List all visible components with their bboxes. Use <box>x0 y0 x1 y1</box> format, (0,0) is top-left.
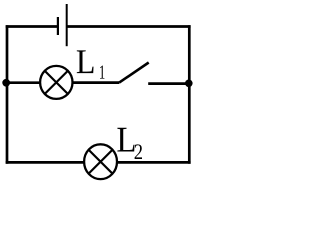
wire left vertical <box>6 25 9 164</box>
wire switch-right (contact to right junction) <box>148 82 189 85</box>
junction node left <box>2 79 10 87</box>
wire middle-left (junction to lamp L1) <box>4 81 40 84</box>
wire bottom-left (corner to lamp L2) <box>6 161 84 164</box>
lamp L2 X legs <box>89 150 113 174</box>
lamp L1 (circle) <box>40 66 72 99</box>
wire middle (lamp L1 to switch pivot) <box>72 81 119 84</box>
wire right vertical <box>188 25 191 164</box>
switch S (open blade) <box>119 63 149 83</box>
lamp L2 (circle) <box>84 144 117 179</box>
wire bottom-right (lamp L2 to corner) <box>118 161 191 164</box>
junction node right <box>185 80 193 88</box>
battery: long positive plate <box>66 4 68 46</box>
label L2 letter L <box>117 128 134 152</box>
label L1 subscript 1 <box>100 66 105 79</box>
label L1 letter L <box>77 50 94 73</box>
wire top-right (battery to right corner) <box>66 25 191 28</box>
label L2 subscript 2 <box>135 144 142 159</box>
wire top-left (left corner to battery) <box>6 25 57 28</box>
battery: short negative plate <box>57 17 59 35</box>
lamp L1 X legs <box>45 71 68 94</box>
